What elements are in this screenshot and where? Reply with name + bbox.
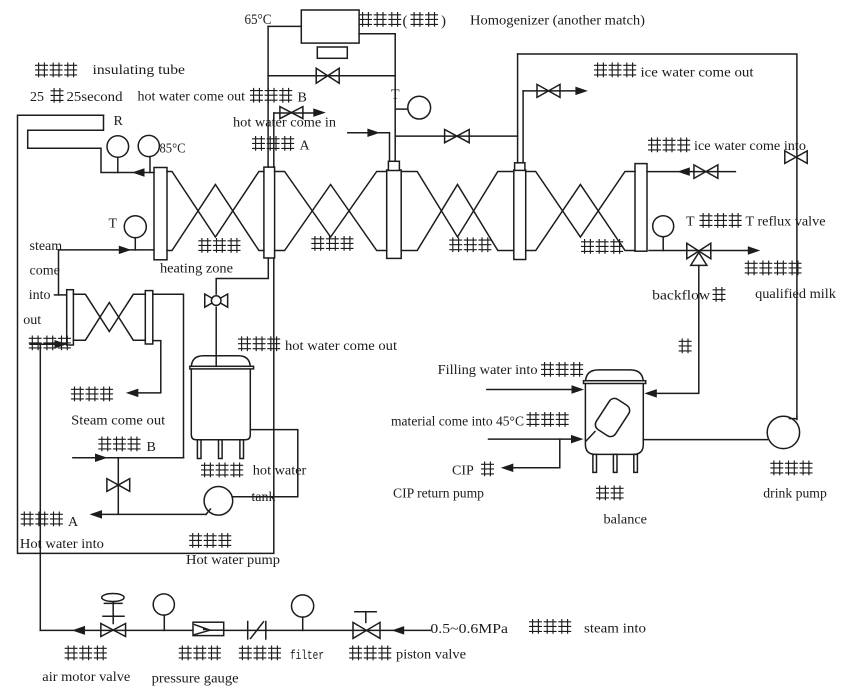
ice water in line	[647, 171, 735, 173]
svg-text:ice water come into: ice water come into	[694, 139, 806, 154]
svg-text:Hot water into: Hot water into	[20, 537, 104, 552]
svg-text:A: A	[300, 139, 311, 154]
milk feed arrow line into P3	[348, 133, 390, 162]
gauge T steam	[124, 216, 146, 238]
label pressure gauge	[179, 646, 191, 660]
coil section 3 (preheat 2)	[401, 172, 514, 238]
gauge R	[107, 136, 129, 158]
svg-text:Steam come out: Steam come out	[71, 414, 165, 429]
svg-text:ice water come out: ice water come out	[641, 66, 754, 81]
label piston valve	[350, 646, 362, 660]
heat exchanger plate P3	[387, 170, 402, 258]
valve ice water in	[694, 165, 718, 179]
arrow into P3	[367, 128, 380, 137]
bypass valve	[316, 68, 339, 83]
steam feed line	[59, 249, 155, 251]
arrow steam into exchanger	[55, 340, 68, 349]
label steam into bottom	[530, 620, 542, 634]
steam supply riser	[30, 343, 67, 345]
ball valve above tank	[205, 294, 228, 307]
svg-text:hot water come out: hot water come out	[138, 90, 246, 105]
label cooling	[582, 240, 594, 254]
gauge before piston valve	[292, 595, 314, 617]
piston valve	[353, 622, 380, 638]
homogenizer base	[317, 47, 347, 58]
steam out line	[139, 341, 161, 393]
svg-text:0.5~0.6MPa: 0.5~0.6MPa	[430, 622, 508, 637]
ice water out branch	[522, 91, 524, 163]
balance tank legs	[593, 454, 597, 472]
svg-text:25: 25	[30, 90, 44, 105]
balance tank body	[585, 370, 643, 455]
balance tank outlet	[643, 439, 767, 441]
arrow ice water out	[575, 87, 588, 96]
svg-text:balance: balance	[604, 513, 648, 528]
valve P3-P4	[445, 130, 470, 143]
heat exchanger plate P2	[264, 167, 275, 258]
svg-text:material come into 45°C: material come into 45°C	[391, 415, 524, 430]
coil section 4 (cooling)	[526, 172, 635, 238]
label hot water out B top	[251, 88, 263, 102]
label hot water out B bottom	[99, 437, 111, 451]
heat exchanger plate P5 (cooling right)	[635, 164, 647, 252]
svg-text:T reflux valve: T reflux valve	[746, 215, 826, 230]
label hot water in A top	[253, 137, 265, 151]
arrow steam supply	[392, 626, 405, 635]
hot water pump	[204, 487, 233, 516]
label preheat 1	[312, 237, 324, 251]
valve hot water line	[117, 458, 119, 514]
arrow hot water come in	[313, 108, 326, 117]
arrow on insulating tube (left)	[132, 168, 145, 177]
label drink pump	[771, 461, 783, 475]
svg-text:T: T	[109, 217, 118, 232]
hot water out B line	[73, 457, 184, 459]
svg-text:Filling water into: Filling water into	[438, 363, 538, 378]
coil section 2 (preheat 1)	[275, 172, 387, 238]
svg-text:T: T	[391, 88, 400, 103]
arrow filling water	[572, 385, 585, 394]
svg-text:): )	[441, 14, 446, 30]
flow indicator box	[193, 622, 224, 635]
valve line P3-P4	[395, 135, 517, 137]
filter symbol	[247, 622, 249, 640]
arrow qualified milk	[748, 246, 761, 255]
svg-text:air motor valve: air motor valve	[42, 670, 130, 685]
steam exchanger coil	[73, 294, 145, 331]
valve ice water out	[537, 84, 560, 97]
hot water come in branch	[274, 112, 314, 114]
label ice water come into	[649, 138, 661, 152]
label backflow cn2	[679, 339, 691, 353]
pressure gauge	[153, 594, 174, 615]
svg-text:insulating tube: insulating tube	[93, 63, 186, 78]
gauge T reflux	[653, 216, 674, 237]
filling water line	[487, 389, 573, 391]
hot water riser	[153, 294, 184, 458]
hot water pump suction	[233, 430, 298, 497]
air motor valve	[101, 624, 126, 637]
backflow line	[657, 265, 699, 393]
svg-text:steam into: steam into	[584, 622, 646, 637]
svg-text:filter: filter	[290, 648, 324, 663]
steam exchanger plate left	[67, 290, 74, 345]
insulating tube serpentine	[18, 115, 274, 553]
svg-text:hot water come in: hot water come in	[233, 116, 336, 131]
svg-text:T: T	[686, 215, 695, 230]
line 65C to box	[268, 25, 301, 27]
svg-text:85°C: 85°C	[160, 142, 186, 157]
svg-text:drink pump: drink pump	[763, 487, 827, 502]
valve hot water come in	[280, 107, 303, 119]
arrow hot water into A	[90, 510, 103, 519]
label preheat 2	[450, 238, 462, 252]
arrow to steam riser	[72, 626, 85, 635]
homogenizer box	[301, 10, 359, 43]
svg-text:65°C: 65°C	[245, 12, 272, 28]
arrow backflow	[644, 389, 657, 398]
coil section 1 (heating zone)	[167, 172, 264, 238]
svg-text:piston valve: piston valve	[396, 648, 466, 663]
steam exchanger plate right	[145, 291, 153, 344]
arrow ice water in	[677, 167, 690, 176]
svg-text:hot water: hot water	[253, 464, 307, 479]
svg-text:A: A	[68, 515, 79, 530]
bottom steam pipe	[40, 629, 430, 631]
ice water loop	[517, 54, 519, 163]
svg-text:(: (	[403, 14, 408, 30]
label hot water tank	[202, 463, 214, 477]
material line	[489, 438, 573, 440]
svg-text:Hot water pump: Hot water pump	[186, 553, 280, 568]
drink pump	[767, 416, 799, 448]
label heating zone cn	[199, 239, 211, 253]
arrow hot water out B	[95, 454, 108, 463]
svg-text:25second: 25second	[67, 90, 123, 105]
svg-text:into: into	[29, 288, 51, 303]
svg-text:CIP return pump: CIP return pump	[393, 487, 484, 502]
svg-text:heating zone: heating zone	[160, 262, 233, 277]
hot water into A line	[101, 513, 206, 515]
heat exchanger plate P4	[514, 170, 526, 260]
heat exchanger plate P1 (heating zone left)	[154, 168, 167, 260]
svg-text:CIP: CIP	[452, 464, 474, 479]
label insulating tube	[36, 63, 48, 77]
svg-text:come: come	[30, 264, 60, 279]
hot water tank body	[191, 356, 250, 440]
label hot water in A bottom	[21, 512, 33, 526]
svg-text:tank: tank	[251, 490, 275, 505]
svg-text:steam: steam	[30, 239, 63, 254]
label steam come out	[72, 387, 84, 401]
valve on ice water return riser	[785, 151, 807, 164]
float in balance tank	[593, 396, 632, 439]
label air motor valve	[65, 646, 77, 660]
svg-text:pressure gauge: pressure gauge	[152, 672, 239, 687]
svg-text:B: B	[298, 91, 307, 106]
arrow steam out	[126, 389, 139, 398]
bypass valve line	[268, 75, 395, 77]
hot water tank lid	[190, 366, 254, 369]
label steam in cn	[29, 336, 41, 350]
arrow steam feed	[119, 246, 132, 255]
CIP return line	[512, 439, 560, 468]
arrow CIP return	[501, 464, 514, 473]
homogenizer left pipe	[267, 26, 269, 167]
label qualified milk cn	[745, 261, 757, 275]
label balance	[597, 486, 609, 500]
gauge 85C	[138, 135, 159, 156]
label hot water come out mid	[239, 337, 251, 351]
hot water tank legs	[197, 440, 201, 459]
label filter	[239, 646, 251, 660]
milk out line	[649, 250, 750, 252]
label hot water pump	[190, 534, 202, 548]
svg-text:hot water come out: hot water come out	[285, 339, 397, 354]
homogenizer right pipe	[359, 34, 395, 162]
gauge T P3	[408, 96, 431, 119]
pipe P2 bottom to valve	[216, 258, 268, 294]
label ice water come out	[595, 63, 607, 77]
svg-text:out: out	[23, 313, 41, 328]
svg-text:R: R	[114, 114, 124, 129]
svg-text:backflow: backflow	[652, 289, 711, 304]
reflux valve	[687, 243, 711, 259]
svg-text:qualified milk: qualified milk	[755, 287, 836, 302]
svg-text:B: B	[147, 440, 156, 455]
arrow material in	[571, 435, 584, 444]
label homogenizer cn	[360, 13, 372, 27]
svg-text:Homogenizer (another match): Homogenizer (another match)	[470, 14, 645, 29]
balance tank lid	[584, 381, 646, 384]
